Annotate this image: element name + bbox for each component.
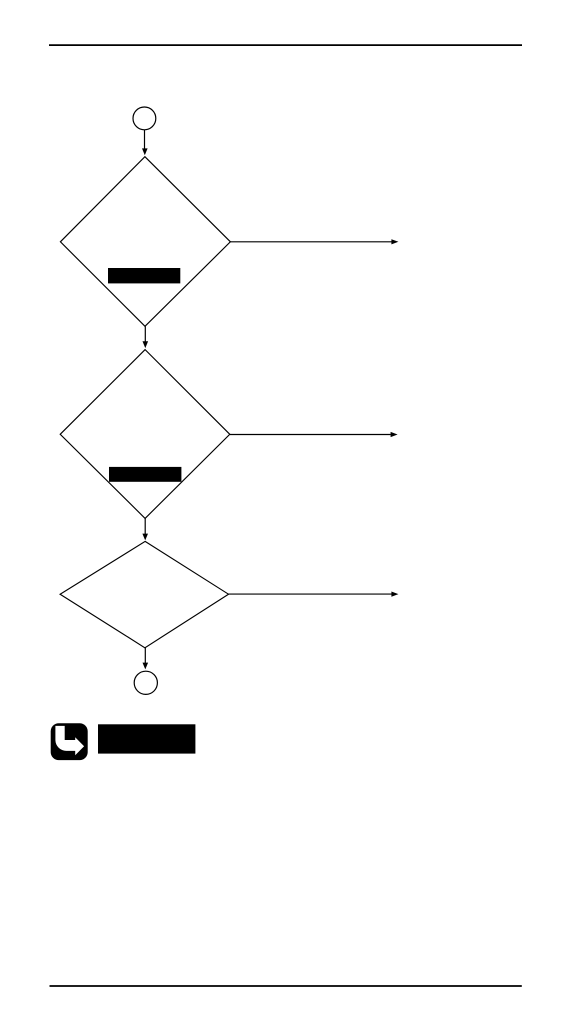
right arrow from diamond 3: [229, 592, 399, 597]
right arrow from diamond 2: [230, 432, 398, 437]
redaction bar 1 (diamond 1 label): [108, 268, 180, 283]
header rule: [49, 44, 522, 46]
start circle: [133, 107, 156, 130]
wire diamond 3 to end circle: [143, 648, 149, 670]
note icon (black rounded square with white curved arrow): [51, 723, 88, 760]
end circle: [134, 671, 157, 694]
decision diamond 1: [60, 157, 230, 327]
wire diamond 1 to diamond 2: [143, 326, 149, 348]
wire start circle to diamond 1: [142, 130, 148, 155]
decision diamond 2: [60, 350, 230, 519]
decision diamond 3: [60, 541, 228, 647]
wire diamond 2 to diamond 3: [142, 518, 148, 540]
redaction bar 2 (diamond 2 label): [109, 467, 181, 482]
right arrow from diamond 1: [230, 239, 398, 244]
redaction bar 3 (note heading): [98, 724, 195, 753]
footer rule: [50, 985, 522, 987]
